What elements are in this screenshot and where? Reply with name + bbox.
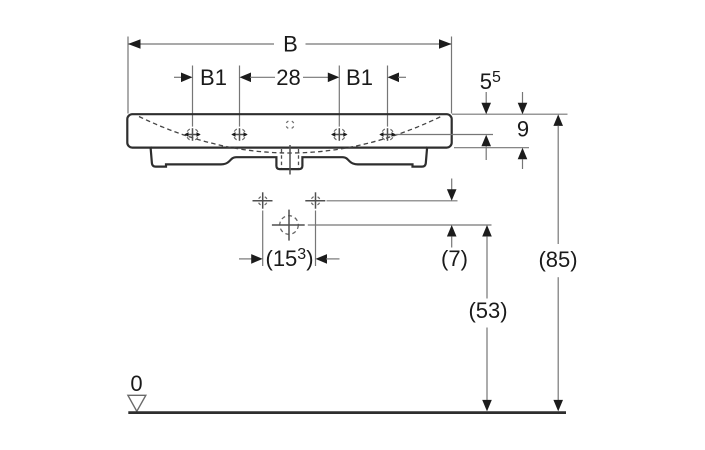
dimension 9 upper stem	[522, 92, 524, 104]
overflow dashed circle	[286, 121, 294, 129]
extension line tap hole 1	[192, 66, 194, 127]
dimension 15.3 right stub	[326, 258, 340, 260]
svg-text:9: 9	[517, 116, 529, 141]
drain box dashed line left	[281, 149, 283, 168]
extension line tap hole 3	[338, 66, 340, 127]
dimension B extension line left	[127, 37, 129, 114]
dimension 9 lower arrow	[518, 148, 528, 160]
dimension B1 left arrow	[181, 73, 193, 83]
svg-text:(153): (153)	[266, 246, 314, 271]
dimension 85 upper stem	[557, 126, 559, 244]
datum triangle	[128, 395, 146, 411]
dimension 53 lower stem	[486, 328, 488, 402]
svg-text:B1: B1	[346, 65, 373, 90]
leader line mounting holes	[327, 200, 458, 202]
dimension 28 line left	[250, 76, 275, 78]
dimension 5.5 upper arrow	[481, 103, 491, 115]
leader line basin top extended	[452, 113, 568, 115]
tap hole 4	[379, 128, 395, 141]
svg-text:(85): (85)	[538, 247, 577, 272]
svg-text:55: 55	[480, 69, 501, 94]
dimension 5.5 upper stem	[485, 92, 487, 104]
dimension 28 line right	[303, 76, 329, 78]
drain cross vertical	[288, 210, 290, 241]
dimension B1 right stub	[398, 76, 406, 78]
extension line mounting hole right	[315, 211, 317, 267]
extension line mounting hole left	[262, 211, 264, 267]
dimension 15.3 right arrow	[316, 254, 328, 264]
leader line basin bottom extended	[454, 147, 529, 149]
extension line tap hole 4	[387, 66, 389, 127]
svg-text:B: B	[283, 32, 298, 57]
dimension 85 lower stem	[557, 277, 559, 401]
dimension B arrow left	[128, 39, 141, 49]
tap hole 3	[331, 128, 347, 141]
svg-text:(53): (53)	[468, 298, 507, 323]
mounting hole right	[305, 192, 325, 208]
basin bowl dashed curve	[139, 117, 441, 154]
dimension B1 right arrow	[388, 73, 400, 83]
dimension 5.5 lower arrow	[481, 135, 491, 147]
dimension 85 upper arrow	[553, 114, 563, 126]
dimension 7 lower stem	[451, 236, 453, 247]
extension line tap hole 2	[239, 66, 241, 127]
dimension B line	[128, 43, 452, 45]
svg-text:28: 28	[276, 65, 300, 90]
drain dashed circle	[280, 216, 299, 235]
svg-text:(7): (7)	[441, 246, 468, 271]
dimension B arrow right	[439, 39, 452, 49]
drain cross horizontal	[272, 224, 305, 226]
dimension 15.3 left stub	[239, 258, 252, 260]
basin apron outline	[151, 147, 428, 170]
dimension 5.5 lower stem	[485, 146, 487, 160]
dimension 85 lower arrow	[553, 400, 563, 412]
dimension 9 upper arrow	[518, 103, 528, 115]
tap hole 1	[184, 128, 200, 141]
dimension 53 upper arrow	[482, 225, 492, 237]
dimension B1 left stub	[174, 76, 182, 78]
dimension 28 arrow right	[328, 73, 340, 83]
svg-text:0: 0	[130, 371, 142, 396]
tap hole 2	[231, 128, 247, 141]
svg-text:B1: B1	[200, 65, 227, 90]
drain box dashed line right	[298, 149, 300, 168]
dimension 7 upper stem	[451, 179, 453, 191]
leader line tap hole centers	[396, 134, 494, 136]
drain box centre line	[289, 145, 291, 175]
dimension 53 upper stem	[486, 236, 488, 298]
leader line drain centre	[308, 224, 492, 226]
ground line	[128, 411, 566, 414]
dimension 15.3 left arrow	[251, 254, 263, 264]
dimension B extension line right	[451, 37, 453, 114]
dimension 53 lower arrow	[482, 400, 492, 412]
basin body outline	[127, 114, 451, 147]
dimension 9 lower stem	[522, 159, 524, 169]
dimension 7 upper arrow	[447, 189, 457, 201]
dimension 7 lower arrow	[447, 225, 457, 237]
dimension 28 arrow left	[240, 73, 252, 83]
mounting hole left	[253, 192, 273, 208]
